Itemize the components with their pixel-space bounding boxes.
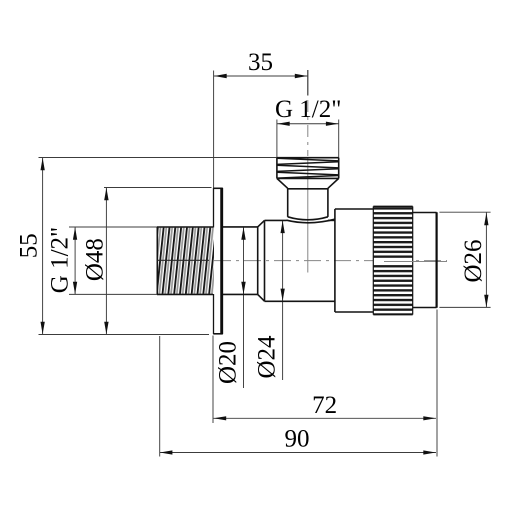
svg-text:55: 55 — [16, 233, 43, 258]
svg-text:72: 72 — [312, 392, 337, 419]
svg-text:35: 35 — [248, 49, 273, 76]
svg-text:G 1/2": G 1/2" — [47, 227, 74, 293]
svg-text:90: 90 — [285, 426, 310, 453]
svg-text:Ø26: Ø26 — [460, 239, 487, 282]
svg-text:Ø48: Ø48 — [82, 238, 109, 281]
svg-text:Ø20: Ø20 — [215, 341, 242, 384]
svg-text:Ø24: Ø24 — [254, 335, 281, 379]
svg-text:G 1/2": G 1/2" — [275, 96, 341, 123]
